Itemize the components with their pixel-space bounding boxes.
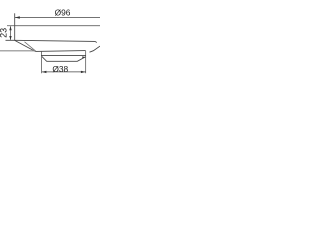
svg-text:23: 23 — [0, 28, 8, 38]
svg-text:Ø38: Ø38 — [52, 64, 68, 74]
svg-text:Ø96: Ø96 — [55, 8, 71, 18]
